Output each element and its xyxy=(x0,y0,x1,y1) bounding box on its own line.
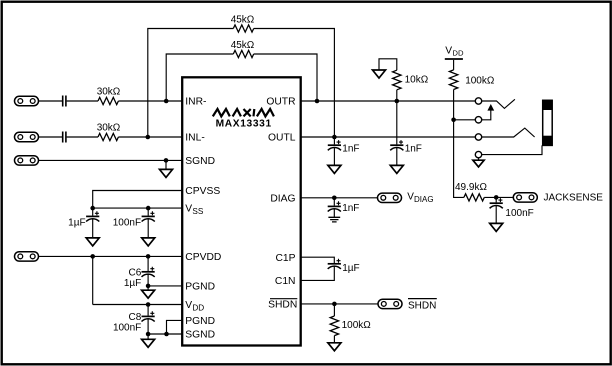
svg-text:45kΩ: 45kΩ xyxy=(231,14,255,25)
svg-text:1µF: 1µF xyxy=(68,217,85,228)
svg-text:CPVSS: CPVSS xyxy=(185,186,220,197)
svg-text:100kΩ: 100kΩ xyxy=(465,76,495,87)
capacitor 1nF OUTR xyxy=(390,144,403,146)
resistor R-INL 30k xyxy=(98,133,118,140)
wire VDD to 100k xyxy=(453,60,455,70)
wire sleeve to jack xyxy=(482,145,542,154)
capacitor 1nF OUTL xyxy=(328,144,341,146)
capacitor 1nF DIAG xyxy=(328,205,341,207)
capacitor C-INR (series) xyxy=(63,96,66,107)
ground SGND xyxy=(160,169,173,177)
svg-text:SGND: SGND xyxy=(185,330,215,341)
svg-text:1nF: 1nF xyxy=(342,203,359,214)
wire C6 to PGND xyxy=(147,274,149,286)
svg-text:100nF: 100nF xyxy=(113,323,141,334)
ground PGND1 xyxy=(142,290,155,298)
wire SGND input xyxy=(39,159,182,161)
wire cap B to ground xyxy=(147,219,149,238)
node SGND2-C8 xyxy=(146,332,151,337)
wire OUTR rail xyxy=(301,100,476,102)
wire 10k top bend xyxy=(379,59,397,70)
wire SHDN res to ground xyxy=(333,336,335,343)
node VSS-C1 xyxy=(90,206,95,211)
wire VDD rail xyxy=(93,304,182,306)
svg-text:V: V xyxy=(185,300,192,311)
svg-text:DIAG: DIAG xyxy=(270,193,295,204)
node SHDN xyxy=(332,302,337,307)
svg-text:30kΩ: 30kΩ xyxy=(97,123,121,134)
svg-text:C8: C8 xyxy=(129,312,142,323)
svg-text:SHDN: SHDN xyxy=(268,300,297,311)
wire NC arrow lead xyxy=(482,110,491,120)
svg-text:45kΩ: 45kΩ xyxy=(231,40,255,51)
wire feedback loop 1 right xyxy=(254,29,335,138)
wire CPVDD rail xyxy=(39,255,182,257)
svg-text:1nF: 1nF xyxy=(405,143,422,154)
svg-text:100nF: 100nF xyxy=(505,208,533,219)
wire feedback loop 2 left xyxy=(166,54,233,101)
node CPVDD-B xyxy=(146,254,151,259)
svg-text:INL-: INL- xyxy=(185,133,204,144)
node PGND1 xyxy=(146,284,151,289)
resistor 10k xyxy=(393,70,401,90)
svg-text:30kΩ: 30kΩ xyxy=(97,87,121,98)
wire cap to R-INR xyxy=(67,100,98,102)
wire ring lever xyxy=(482,128,535,137)
connector J-JACKSENSE xyxy=(513,193,537,202)
wire PGND 1 rail xyxy=(148,285,181,287)
wire feedback loop 1 left xyxy=(148,29,234,138)
jack plug body xyxy=(543,100,553,145)
svg-text:SS: SS xyxy=(192,207,203,216)
wire C6 top stub xyxy=(147,256,149,271)
capacitor 1uF VSS xyxy=(86,215,99,217)
wire jacksense cap to ground xyxy=(495,206,497,224)
svg-text:OUTL: OUTL xyxy=(268,133,296,144)
wire tip lever xyxy=(482,99,515,108)
resistor 49.9k xyxy=(464,194,484,201)
wire CPVSS xyxy=(93,191,182,209)
wire 1nF-L to ground xyxy=(333,148,335,166)
resistor RF1 45k xyxy=(233,25,253,32)
wire PGND 2 bend xyxy=(167,320,182,334)
wire C1N xyxy=(301,266,335,280)
svg-text:V: V xyxy=(445,46,452,57)
capacitor C6 1uF xyxy=(142,271,155,273)
svg-text:100kΩ: 100kΩ xyxy=(342,320,372,331)
svg-text:C1P: C1P xyxy=(275,253,295,264)
node CPVDD-A xyxy=(90,254,95,259)
ground SHDN xyxy=(328,343,341,351)
node INR junction xyxy=(164,99,169,104)
wire SHDN res stub xyxy=(333,304,335,316)
svg-text:PGND: PGND xyxy=(185,316,215,327)
svg-text:C6: C6 xyxy=(129,267,142,278)
wire SGND ground stub xyxy=(165,160,167,169)
wire tip NC line xyxy=(454,119,476,121)
svg-text:SHDN: SHDN xyxy=(408,300,436,311)
ground 1nF-R xyxy=(390,165,403,173)
wire OUTR to 1nF-R xyxy=(396,101,398,144)
node DIAG xyxy=(332,196,337,201)
connector J-INR xyxy=(15,96,39,105)
wire 10k to OUTR xyxy=(396,90,398,101)
svg-text:1µF: 1µF xyxy=(342,263,359,274)
node VSS-C2 xyxy=(146,206,151,211)
resistor 100k pull xyxy=(449,70,457,90)
capacitor C1 1uF xyxy=(328,263,341,265)
svg-text:DD: DD xyxy=(192,303,204,312)
wire INR input xyxy=(39,100,62,102)
wire SGND 2 rail xyxy=(148,333,181,335)
node PGND2-SGND2 xyxy=(164,332,169,337)
node jacksense xyxy=(494,195,499,200)
wire DIAG cap stub xyxy=(333,198,335,206)
connector J-CPVDD xyxy=(15,252,39,261)
wire feedback loop 2 right xyxy=(254,54,317,101)
ground earth DIAG xyxy=(328,217,340,222)
svg-text:SGND: SGND xyxy=(185,156,215,167)
resistor 100k SHDN xyxy=(330,316,338,336)
wire 100k down xyxy=(454,90,464,198)
resistor RF2 45k xyxy=(233,50,253,57)
wire R-INL to IC pin INL- xyxy=(118,136,181,138)
jack contact ring xyxy=(475,134,481,140)
wire SHDN rail xyxy=(301,303,378,305)
wire C8 to SGND rail xyxy=(147,319,149,334)
ground jacksense xyxy=(490,223,503,231)
svg-text:V: V xyxy=(185,204,192,215)
node tip-sense xyxy=(451,118,456,123)
svg-text:1µF: 1µF xyxy=(124,278,141,289)
logo MAXIM xyxy=(213,109,274,116)
node VDD-C8 xyxy=(146,302,151,307)
svg-text:INR-: INR- xyxy=(185,97,206,108)
ground cap B xyxy=(142,238,155,246)
connector J-SHDN xyxy=(378,299,402,308)
jack contact tip xyxy=(475,98,481,104)
wire SGND2 gnd stub xyxy=(147,334,149,339)
svg-text:100nF: 100nF xyxy=(113,217,141,228)
capacitor C-INL (series) xyxy=(63,132,66,143)
svg-text:1nF: 1nF xyxy=(342,143,359,154)
node OUTL-C xyxy=(332,135,337,140)
wire INL input xyxy=(39,136,62,138)
resistor R-INR 30k xyxy=(98,97,118,104)
ground sleeve xyxy=(473,160,484,167)
ground SGND2 xyxy=(142,339,155,347)
svg-text:DIAG: DIAG xyxy=(414,195,434,204)
wire PGND1 gnd stub xyxy=(147,286,149,290)
ground 1nF-L xyxy=(328,165,341,173)
wire C8 top stub xyxy=(147,305,149,316)
wire jacksense cap stub xyxy=(495,197,497,202)
wire VSS cap A stub xyxy=(92,208,94,216)
svg-text:JACKSENSE: JACKSENSE xyxy=(544,192,604,203)
wire cap A to ground xyxy=(92,219,94,238)
capacitor 100nF VSS xyxy=(142,215,155,217)
op-amp U1 MAX13331 box xyxy=(182,77,301,345)
svg-text:10kΩ: 10kΩ xyxy=(405,75,429,86)
svg-text:MAX13331: MAX13331 xyxy=(216,119,272,130)
node OUTR-FB xyxy=(315,99,320,104)
connector J-SGND xyxy=(15,156,39,165)
wire 49.9k to connector xyxy=(484,196,513,198)
svg-text:DD: DD xyxy=(452,49,464,58)
node OUTR-10k xyxy=(395,99,400,104)
wire DIAG cap to earth xyxy=(333,209,335,217)
svg-text:PGND: PGND xyxy=(185,282,215,293)
wire CPVDD down to VDD rail xyxy=(92,256,94,304)
wire OUTL rail xyxy=(301,136,476,138)
connector J-INL xyxy=(15,132,39,141)
svg-text:49.9kΩ: 49.9kΩ xyxy=(455,182,487,193)
wire VSS rail xyxy=(93,207,182,209)
node SGND junction xyxy=(164,158,169,163)
capacitor 100nF jacksense xyxy=(490,202,503,204)
wire R-INR to IC pin INR- xyxy=(118,100,181,102)
node INL junction xyxy=(146,135,151,140)
arrow NC xyxy=(487,104,494,111)
ground cap A xyxy=(86,238,99,246)
capacitor C8 100nF xyxy=(142,315,155,317)
jack contact tip-NC xyxy=(475,117,481,123)
wire VSS cap B stub xyxy=(147,208,149,216)
wire sleeve gnd stub xyxy=(478,158,480,160)
svg-text:OUTR: OUTR xyxy=(266,97,295,108)
connector J-VDIAG xyxy=(378,193,402,202)
wire 1nF-L stub xyxy=(333,137,335,144)
wire C1P xyxy=(301,257,335,263)
wire cap to R-INL xyxy=(67,136,98,138)
svg-text:CPVDD: CPVDD xyxy=(185,252,221,263)
wire DIAG rail xyxy=(301,197,378,199)
wire 1nF-R to ground xyxy=(396,148,398,166)
jack contact sleeve xyxy=(475,151,481,157)
svg-text:C1N: C1N xyxy=(275,276,296,287)
ground 10k top xyxy=(373,70,386,78)
